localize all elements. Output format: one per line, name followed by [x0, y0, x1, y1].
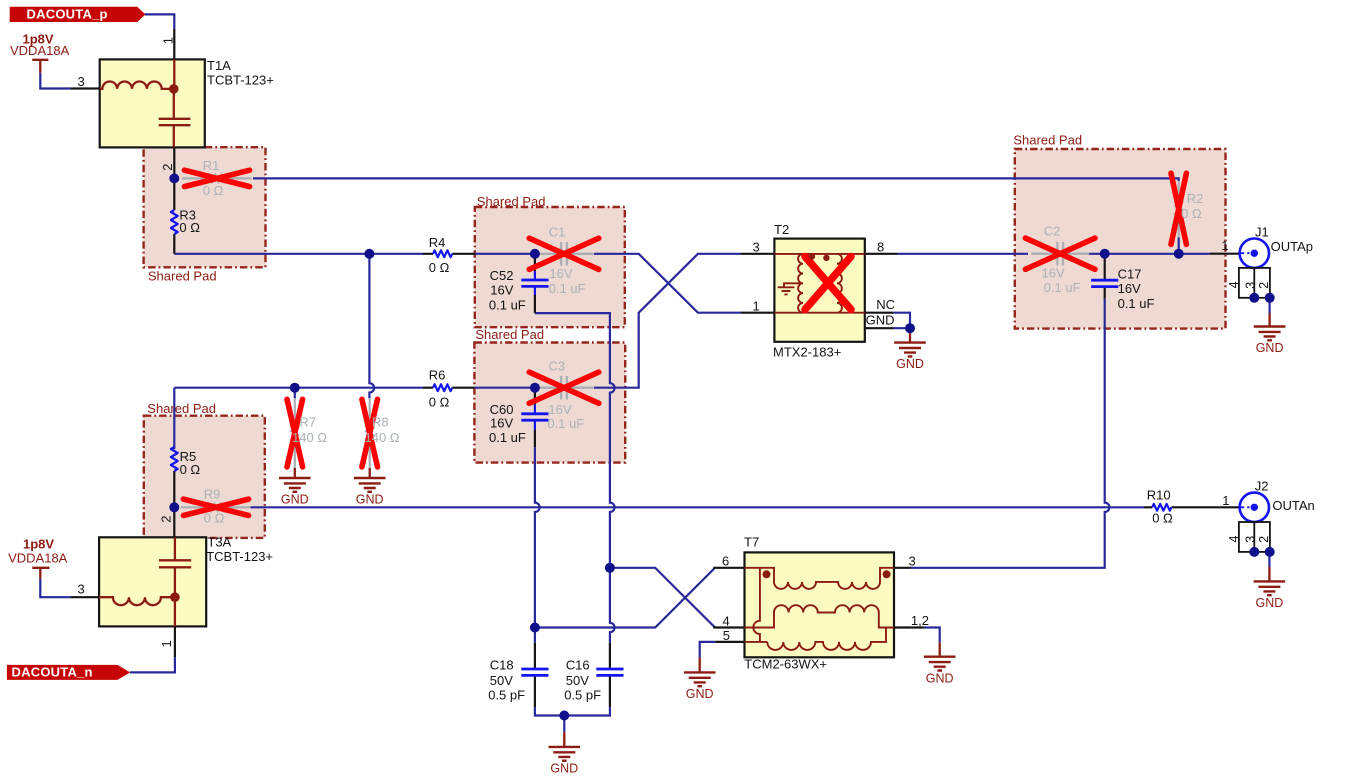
svg-text:5: 5: [723, 628, 730, 643]
svg-text:0.1 uF: 0.1 uF: [1044, 280, 1081, 295]
svg-text:TCBT-123+: TCBT-123+: [207, 72, 274, 87]
svg-text:Shared Pad: Shared Pad: [477, 194, 546, 209]
svg-text:OUTAn: OUTAn: [1272, 498, 1314, 513]
svg-text:1: 1: [1221, 238, 1228, 253]
svg-text:1,2: 1,2: [911, 613, 929, 628]
svg-text:OUTAp: OUTAp: [1271, 239, 1313, 254]
svg-text:R1: R1: [203, 158, 220, 173]
svg-text:R4: R4: [429, 235, 446, 250]
svg-text:TCBT-123+: TCBT-123+: [206, 549, 273, 564]
svg-text:16V: 16V: [1118, 281, 1141, 296]
svg-text:C18: C18: [490, 658, 514, 673]
svg-text:VDDA18A: VDDA18A: [8, 550, 68, 565]
svg-text:0 Ω: 0 Ω: [429, 395, 450, 410]
svg-text:Shared Pad: Shared Pad: [1013, 133, 1082, 148]
svg-text:1p8V: 1p8V: [23, 32, 54, 47]
svg-text:0 Ω: 0 Ω: [1181, 206, 1202, 221]
svg-text:0 Ω: 0 Ω: [180, 462, 201, 477]
svg-text:16V: 16V: [490, 283, 513, 298]
svg-text:R9: R9: [204, 487, 221, 502]
svg-text:R7: R7: [299, 414, 316, 429]
svg-text:0 Ω: 0 Ω: [1152, 511, 1173, 526]
svg-text:R8: R8: [372, 414, 389, 429]
svg-text:3: 3: [78, 74, 85, 89]
svg-text:C52: C52: [490, 268, 514, 283]
svg-text:J2: J2: [1255, 479, 1269, 494]
svg-text:T7: T7: [744, 534, 759, 549]
svg-text:T1A: T1A: [207, 58, 231, 73]
svg-text:DACOUTA_n: DACOUTA_n: [12, 665, 93, 680]
svg-text:NC: NC: [876, 297, 895, 312]
svg-text:GND: GND: [866, 312, 895, 327]
svg-text:1: 1: [161, 37, 176, 44]
svg-text:0 Ω: 0 Ω: [179, 220, 200, 235]
svg-text:0.5 pF: 0.5 pF: [564, 688, 601, 703]
svg-text:Shared Pad: Shared Pad: [147, 401, 216, 416]
svg-text:3: 3: [909, 554, 916, 569]
svg-text:J1: J1: [1255, 225, 1269, 240]
svg-text:R6: R6: [429, 368, 446, 383]
svg-text:2: 2: [160, 164, 175, 171]
svg-text:4: 4: [723, 614, 730, 629]
svg-text:0.1 uF: 0.1 uF: [549, 281, 586, 296]
svg-text:1: 1: [159, 640, 174, 647]
svg-text:T2: T2: [774, 222, 789, 237]
svg-text:16V: 16V: [1042, 265, 1065, 280]
svg-text:3: 3: [753, 240, 760, 255]
svg-text:C17: C17: [1118, 267, 1142, 282]
svg-text:140 Ω: 140 Ω: [365, 430, 400, 445]
svg-text:6: 6: [722, 554, 729, 569]
svg-text:8: 8: [877, 240, 884, 255]
svg-text:0.1 uF: 0.1 uF: [1118, 296, 1155, 311]
svg-text:C1: C1: [549, 224, 566, 239]
svg-text:1: 1: [753, 298, 760, 313]
svg-text:3: 3: [78, 582, 85, 597]
svg-text:1p8V: 1p8V: [23, 537, 54, 552]
svg-text:140 Ω: 140 Ω: [292, 430, 327, 445]
svg-text:C2: C2: [1044, 224, 1061, 239]
svg-text:Shared Pad: Shared Pad: [475, 327, 544, 342]
svg-text:0 Ω: 0 Ω: [429, 260, 450, 275]
svg-text:50V: 50V: [490, 673, 513, 688]
svg-text:16V: 16V: [490, 415, 513, 430]
svg-text:Shared Pad: Shared Pad: [148, 268, 217, 283]
svg-text:MTX2-183+: MTX2-183+: [773, 344, 841, 359]
svg-text:0.1 uF: 0.1 uF: [489, 298, 526, 313]
svg-text:T3A: T3A: [207, 534, 231, 549]
svg-text:2: 2: [158, 516, 173, 523]
svg-text:C16: C16: [566, 658, 590, 673]
svg-text:C3: C3: [548, 359, 565, 374]
svg-text:16V: 16V: [549, 266, 572, 281]
svg-text:0 Ω: 0 Ω: [204, 511, 225, 526]
svg-text:50V: 50V: [566, 673, 589, 688]
svg-text:0 Ω: 0 Ω: [203, 183, 224, 198]
svg-text:R10: R10: [1147, 487, 1171, 502]
svg-text:R2: R2: [1187, 191, 1204, 206]
svg-text:0.1 uF: 0.1 uF: [547, 416, 584, 431]
svg-text:0.5 pF: 0.5 pF: [488, 688, 525, 703]
svg-text:1: 1: [1222, 493, 1229, 508]
svg-text:DACOUTA_p: DACOUTA_p: [27, 6, 108, 21]
svg-text:TCM2-63WX+: TCM2-63WX+: [744, 657, 827, 672]
svg-text:0.1 uF: 0.1 uF: [489, 430, 526, 445]
svg-text:16V: 16V: [548, 402, 571, 417]
